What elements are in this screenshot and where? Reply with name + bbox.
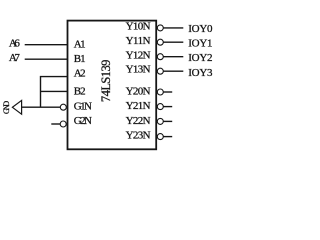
svg-text:Y21N: Y21N [126,100,151,112]
svg-text:A7: A7 [9,52,21,64]
svg-text:IOY1: IOY1 [188,37,212,49]
svg-text:Y10N: Y10N [126,20,151,32]
svg-text:A2: A2 [74,67,86,79]
svg-text:Y12N: Y12N [126,49,151,61]
svg-text:IOY0: IOY0 [188,23,213,35]
svg-text:G2N: G2N [74,115,92,127]
svg-text:G1N: G1N [74,101,92,113]
svg-text:IOY2: IOY2 [188,52,212,64]
svg-text:B1: B1 [74,53,86,65]
svg-text:74LS139: 74LS139 [99,60,113,103]
svg-text:Y11N: Y11N [126,35,151,47]
svg-text:Y23N: Y23N [126,130,151,142]
svg-text:Y20N: Y20N [126,86,151,98]
svg-text:A6: A6 [9,38,21,50]
svg-text:IOY3: IOY3 [188,67,213,79]
svg-text:B2: B2 [74,86,86,98]
svg-text:Y22N: Y22N [126,115,151,127]
svg-text:GND: GND [2,101,11,114]
svg-text:Y13N: Y13N [126,64,151,76]
svg-text:A1: A1 [74,38,86,50]
